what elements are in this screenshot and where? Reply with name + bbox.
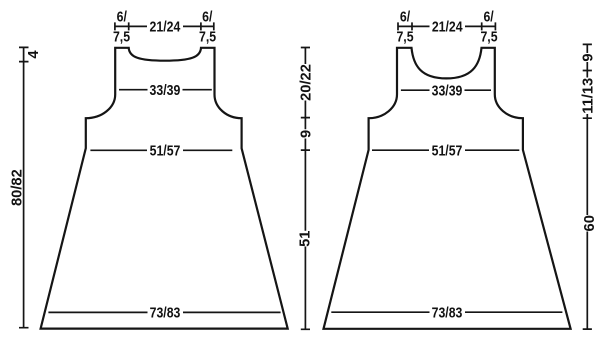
svg-text:80/82: 80/82 [9, 169, 25, 206]
svg-text:33/39: 33/39 [150, 82, 181, 98]
svg-text:33/39: 33/39 [432, 82, 463, 98]
right vertical measure ticks [583, 44, 592, 329]
front top measure line (21/24) [398, 25, 495, 27]
back top measure ticks [115, 22, 214, 30]
svg-text:20/22: 20/22 [298, 64, 314, 101]
back top measure line (21/24) [115, 25, 214, 27]
svg-text:21/24: 21/24 [432, 18, 463, 34]
front hem width line (73/83) [331, 311, 562, 313]
svg-text:6/: 6/ [400, 8, 410, 24]
svg-text:7,5: 7,5 [396, 28, 413, 44]
svg-text:9: 9 [580, 54, 596, 62]
front empire width line (51/57) [372, 149, 519, 151]
svg-text:6/: 6/ [483, 8, 493, 24]
svg-text:6/: 6/ [117, 8, 127, 24]
front piece outline (right dress silhouette) [324, 48, 571, 329]
svg-text:60: 60 [582, 215, 598, 231]
back chest width line (33/39) [119, 89, 212, 91]
svg-text:51: 51 [297, 231, 313, 247]
svg-text:6/: 6/ [202, 8, 212, 24]
svg-text:7,5: 7,5 [113, 28, 130, 44]
back empire width line (51/57) [90, 149, 232, 151]
middle vertical measure ticks [301, 48, 310, 330]
svg-text:4: 4 [26, 50, 42, 59]
left vertical measure ticks [19, 47, 29, 327]
svg-text:11/13: 11/13 [580, 78, 596, 114]
svg-text:73/83: 73/83 [150, 304, 181, 320]
back hem width line (73/83) [48, 311, 280, 313]
svg-text:21/24: 21/24 [150, 18, 181, 34]
svg-text:7,5: 7,5 [480, 28, 497, 44]
back piece outline (left dress silhouette) [41, 48, 288, 329]
svg-text:7,5: 7,5 [199, 28, 216, 44]
front top measure ticks [398, 22, 495, 30]
svg-text:51/57: 51/57 [150, 142, 181, 158]
svg-text:9: 9 [298, 130, 314, 138]
front chest width line (33/39) [401, 89, 491, 91]
left vertical measure line (4 / 80/82) [23, 47, 25, 327]
svg-text:73/83: 73/83 [432, 304, 463, 320]
right vertical measure line (9, 11/13, 60) [586, 44, 588, 329]
svg-text:51/57: 51/57 [432, 142, 463, 158]
middle vertical measure line (20/22, 9, 51) [304, 48, 306, 330]
